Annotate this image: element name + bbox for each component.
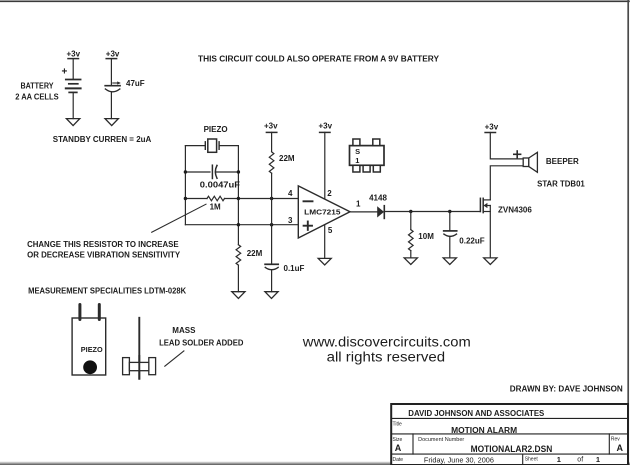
svg-text:0.1uF: 0.1uF — [284, 264, 305, 273]
svg-text:1M: 1M — [210, 203, 221, 212]
svg-text:22M: 22M — [279, 154, 295, 163]
wire 1M row to op-amp pin 4 — [225, 198, 299, 200]
bottom shadow band — [0, 461, 630, 465]
power +3v (47uF) — [106, 50, 120, 59]
mass solder blob drawing — [123, 356, 156, 379]
svg-text:+3v: +3v — [67, 50, 81, 59]
wire piezo top right — [219, 145, 238, 147]
svg-text:3: 3 — [288, 216, 293, 225]
svg-text:22M: 22M — [247, 249, 263, 258]
wire pin 3 row — [185, 224, 298, 226]
svg-text:STANDBY CURREN = 2uA: STANDBY CURREN = 2uA — [53, 135, 152, 144]
svg-text:Title: Title — [393, 422, 402, 428]
svg-text:1: 1 — [557, 455, 561, 464]
wire between pin4 and pin3 rows — [271, 199, 273, 225]
wire diode to gate — [384, 211, 480, 213]
wire 0.1uF bottom — [271, 270, 273, 291]
svg-text:DRAWN BY: DAVE JOHNSON: DRAWN BY: DAVE JOHNSON — [510, 384, 623, 393]
ground (MOSFET source) — [484, 258, 497, 265]
wire piezo loop left vertical — [184, 146, 186, 225]
node junction pin3 0.1uF — [270, 223, 273, 226]
wire 0.1uF top — [271, 225, 273, 265]
svg-text:BEEPER: BEEPER — [546, 157, 579, 166]
wire 47uF bottom — [110, 92, 112, 119]
ground (op-amp pin 5) — [318, 258, 331, 265]
node junction 0.22uF — [448, 210, 451, 213]
wire cap row left — [185, 171, 210, 173]
battery BT1 2 AA cells — [62, 67, 81, 93]
svg-text:ZVN4306: ZVN4306 — [498, 205, 532, 214]
svg-text:LEAD SOLDER ADDED: LEAD SOLDER ADDED — [159, 339, 244, 348]
svg-text:MASS: MASS — [172, 326, 196, 335]
svg-text:THIS CIRCUIT COULD ALSO OPERAT: THIS CIRCUIT COULD ALSO OPERATE FROM A 9… — [198, 55, 440, 64]
svg-text:S: S — [355, 147, 360, 156]
wire battery top — [72, 59, 74, 80]
node junction 22M top — [270, 197, 273, 200]
wire op-amp output — [350, 211, 377, 213]
svg-text:A: A — [617, 443, 624, 453]
svg-text:1: 1 — [596, 455, 600, 464]
wire 0.22uF bottom — [449, 237, 451, 258]
ground (22M lower) — [232, 292, 245, 299]
svg-text:BATTERY: BATTERY — [21, 81, 55, 90]
capacitor C4 0.22uF — [444, 231, 457, 237]
label battery — [15, 81, 59, 101]
piezo element X1 — [205, 139, 219, 152]
plus sign (beeper polarity) — [514, 151, 521, 158]
power +3v (22M) — [264, 122, 278, 133]
wire piezo top left — [185, 145, 205, 147]
svg-text:PIEZO: PIEZO — [81, 345, 103, 354]
wire 47uF top — [110, 59, 112, 85]
resistor R4 10M — [409, 230, 414, 251]
svg-text:+3v: +3v — [319, 122, 333, 131]
svg-text:+3v: +3v — [485, 122, 499, 131]
wire 22M top — [271, 132, 273, 151]
svg-text:LMC7215: LMC7215 — [304, 208, 340, 217]
svg-text:10M: 10M — [418, 232, 434, 241]
ground (0.1uF) — [265, 292, 278, 299]
node junction 1M left — [184, 197, 187, 200]
svg-text:MOTIONALAR2.DSN: MOTIONALAR2.DSN — [471, 444, 553, 454]
piezo film lead line — [138, 318, 140, 379]
svg-text:DAVID JOHNSON AND ASSOCIATES: DAVID JOHNSON AND ASSOCIATES — [408, 409, 545, 418]
speaker LS1 beeper — [523, 152, 537, 172]
node junction right cap row — [237, 170, 240, 173]
resistor R3 22M lower — [236, 245, 241, 265]
svg-text:STAR TDB01: STAR TDB01 — [537, 179, 585, 188]
transistor Q1 ZVN4306 MOSFET — [480, 198, 490, 258]
node junction 1M right — [237, 197, 240, 200]
svg-text:0.0047uF: 0.0047uF — [200, 181, 240, 190]
wire battery bottom — [72, 92, 74, 118]
svg-text:Rev: Rev — [611, 437, 620, 443]
node junction left cap row — [184, 170, 187, 173]
svg-text:PIEZO: PIEZO — [204, 125, 228, 134]
svg-text:1: 1 — [356, 199, 361, 208]
piezo sensor body drawing — [72, 305, 106, 376]
right border frame line — [627, 0, 629, 465]
wire 1M row left — [185, 198, 207, 200]
diode D1 4148 — [377, 206, 384, 219]
IC package icon SOT-23-5 — [350, 139, 385, 172]
note: change resistor — [27, 240, 181, 259]
resistor R2 22M upper — [269, 152, 274, 173]
node junction 10M — [409, 210, 412, 213]
ground (battery) — [66, 119, 79, 126]
svg-text:OR DECREASE VIBRATION SENSITIV: OR DECREASE VIBRATION SENSITIVITY — [27, 250, 181, 259]
top border frame line — [0, 0, 629, 2]
svg-text:A: A — [395, 443, 402, 453]
pointer line to mass — [165, 351, 184, 366]
svg-text:+: + — [62, 67, 68, 78]
ground (0.22uF) — [443, 258, 456, 265]
svg-text:1: 1 — [355, 156, 359, 165]
svg-text:all rights reserved: all rights reserved — [327, 350, 446, 365]
svg-text:Date: Date — [393, 457, 404, 463]
wire 10M top — [410, 212, 412, 230]
svg-text:2 AA CELLS: 2 AA CELLS — [15, 93, 59, 102]
capacitor C3 0.1uF — [265, 264, 278, 269]
svg-text:0.22uF: 0.22uF — [459, 236, 484, 245]
wire 22M bottom — [271, 173, 273, 198]
svg-text:2: 2 — [327, 189, 332, 198]
wire speaker bottom to drain — [490, 166, 523, 200]
svg-text:www.discovercircuits.com: www.discovercircuits.com — [302, 335, 471, 350]
node junction pin3 22M lower — [237, 223, 240, 226]
svg-text:+3v: +3v — [264, 122, 278, 131]
wire +3v down to speaker row — [490, 133, 523, 159]
capacitor C1 47uF polarized — [105, 81, 121, 91]
svg-text:4148: 4148 — [369, 193, 387, 202]
wire op-amp pin 5 — [324, 225, 326, 258]
wire 10M bottom — [410, 251, 412, 258]
resistor R1 1M — [207, 196, 225, 201]
ground (10M) — [404, 258, 417, 265]
svg-text:+3v: +3v — [106, 50, 120, 59]
op-amp U1 LMC7215 — [298, 186, 350, 238]
pointer line to 1M — [152, 204, 206, 232]
svg-text:CHANGE THIS RESISTOR TO INCREA: CHANGE THIS RESISTOR TO INCREASE — [27, 240, 179, 249]
svg-text:5: 5 — [328, 226, 333, 235]
power +3v (beeper) — [485, 122, 499, 132]
power +3v (battery) — [67, 50, 81, 59]
title block frame — [391, 404, 628, 465]
wire 0.22uF top — [449, 212, 451, 231]
svg-text:Document Number: Document Number — [418, 437, 464, 443]
svg-text:MEASUREMENT SPECIALITIES LDTM-: MEASUREMENT SPECIALITIES LDTM-028K — [28, 286, 186, 295]
svg-text:MOTION ALARM: MOTION ALARM — [451, 426, 517, 435]
svg-text:47uF: 47uF — [126, 79, 145, 88]
svg-text:Friday, June 30, 2006: Friday, June 30, 2006 — [424, 455, 494, 464]
svg-text:4: 4 — [288, 189, 293, 198]
ground (47uF) — [105, 119, 118, 126]
wire piezo loop right vertical — [237, 146, 239, 245]
wire 22M lower bottom — [237, 265, 239, 292]
svg-text:Sheet: Sheet — [525, 457, 539, 463]
capacitor C2 0.0047uF — [212, 165, 217, 178]
wire cap row right — [217, 171, 239, 173]
svg-text:of: of — [577, 456, 583, 463]
power +3v (op-amp) — [319, 122, 333, 133]
wire op-amp pin 2 — [324, 132, 326, 199]
